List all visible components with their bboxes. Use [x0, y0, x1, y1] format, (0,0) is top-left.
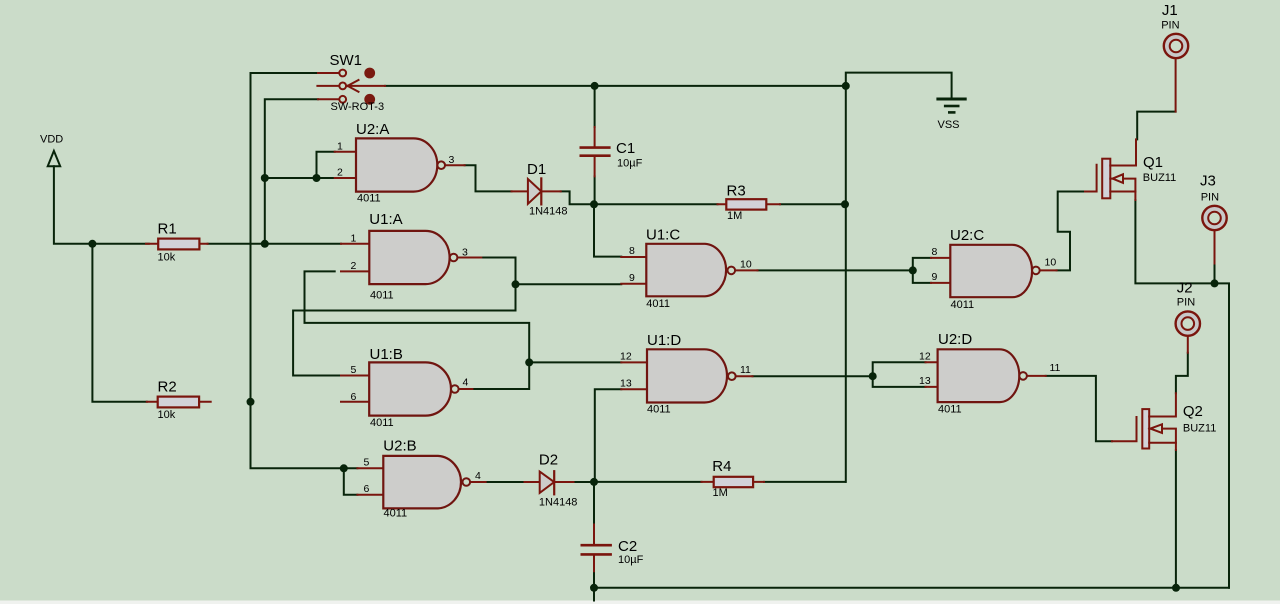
- svg-text:10: 10: [1045, 257, 1057, 269]
- svg-text:U2:C: U2:C: [950, 227, 984, 244]
- ground VSS: [938, 99, 966, 131]
- wire U2:A output to D1: [465, 165, 512, 191]
- wire R4 right to VSS rail: [764, 481, 845, 483]
- wire J2 to Q2 drain: [1176, 353, 1188, 394]
- svg-text:J3: J3: [1200, 172, 1216, 189]
- svg-text:D2: D2: [539, 452, 558, 469]
- svg-text:BUZ11: BUZ11: [1183, 423, 1216, 435]
- svg-text:SW-ROT-3: SW-ROT-3: [331, 101, 385, 113]
- wire U2:B output to D2: [486, 481, 525, 483]
- svg-text:3: 3: [462, 246, 468, 258]
- svg-text:4011: 4011: [951, 299, 975, 311]
- svg-text:U2:A: U2:A: [356, 121, 389, 138]
- svg-text:J2: J2: [1177, 279, 1193, 296]
- wire D2 cathode to node B: [574, 481, 595, 483]
- wire bottom rail: [594, 588, 1229, 601]
- NAND gate U1:D: [620, 332, 753, 416]
- svg-text:1N4148: 1N4148: [539, 497, 578, 509]
- NAND gate U1:B: [341, 346, 472, 429]
- svg-text:5: 5: [351, 364, 357, 376]
- svg-text:4011: 4011: [370, 290, 394, 302]
- svg-text:R2: R2: [158, 378, 177, 395]
- node junction dots: [88, 240, 96, 248]
- wire node B to R4 left: [594, 481, 702, 483]
- wire node to R3 left: [594, 203, 718, 205]
- wire C1 bottom to node: [594, 176, 596, 204]
- svg-text:SW1: SW1: [330, 52, 363, 69]
- svg-text:D1: D1: [527, 161, 546, 178]
- svg-text:11: 11: [1050, 362, 1061, 374]
- svg-text:1M: 1M: [713, 487, 728, 499]
- transistor Q1: [1085, 139, 1176, 200]
- svg-text:3: 3: [449, 154, 455, 166]
- svg-text:2: 2: [351, 260, 357, 272]
- svg-text:4011: 4011: [384, 507, 408, 519]
- svg-text:4011: 4011: [938, 403, 962, 415]
- svg-text:J1: J1: [1162, 2, 1178, 19]
- diode D2: [525, 452, 578, 509]
- svg-text:10µF: 10µF: [618, 554, 644, 566]
- svg-text:11: 11: [740, 364, 751, 376]
- svg-text:10µF: 10µF: [617, 157, 643, 169]
- wire U2:D output to Q2 gate: [1046, 376, 1112, 441]
- wire R3 right to VSS rail: [780, 203, 845, 205]
- wire U2:A pin1 branch: [317, 152, 335, 178]
- NAND gate U2:C: [931, 227, 1057, 311]
- NAND gate U2:B: [357, 438, 485, 520]
- wire Q2 source to bottom rail: [1175, 450, 1177, 588]
- svg-text:R1: R1: [158, 220, 177, 237]
- wire SW1 pole to VSS ground: [385, 73, 952, 98]
- power VDD: [40, 133, 63, 166]
- wire U1:D output to U2:D inputs: [753, 362, 926, 387]
- svg-text:6: 6: [351, 391, 357, 403]
- svg-text:4011: 4011: [646, 298, 670, 310]
- svg-text:U1:D: U1:D: [647, 332, 681, 349]
- svg-text:Q1: Q1: [1143, 154, 1163, 171]
- wire U1:B output: [472, 362, 529, 389]
- svg-text:10k: 10k: [158, 251, 176, 263]
- wire U1:A output: [481, 258, 515, 285]
- wire J3 stem: [1214, 264, 1216, 284]
- svg-text:Q2: Q2: [1183, 403, 1203, 420]
- resistor R4: [702, 458, 765, 499]
- svg-text:U1:B: U1:B: [370, 346, 403, 363]
- wire J1 to Q1 drain: [1137, 112, 1175, 140]
- svg-text:13: 13: [620, 378, 632, 390]
- wire D1 cathode to node: [561, 191, 594, 204]
- svg-text:1N4148: 1N4148: [529, 206, 568, 218]
- NAND gate U2:D: [919, 331, 1061, 416]
- svg-text:5: 5: [364, 456, 370, 468]
- connector J3: [1200, 172, 1227, 263]
- svg-text:R3: R3: [727, 182, 746, 199]
- svg-text:U1:C: U1:C: [646, 227, 680, 244]
- svg-text:1: 1: [337, 140, 343, 152]
- wire U1:A pin2 to U1:B out node: [305, 271, 530, 362]
- svg-text:2: 2: [337, 167, 343, 179]
- svg-text:4011: 4011: [647, 404, 671, 416]
- transistor Q2: [1112, 393, 1216, 450]
- wire U1:B out node to U1:D pin12: [529, 361, 621, 363]
- svg-text:4: 4: [475, 470, 481, 482]
- svg-text:BUZ11: BUZ11: [1143, 172, 1176, 184]
- svg-text:9: 9: [932, 271, 938, 283]
- svg-text:U1:A: U1:A: [369, 211, 402, 228]
- svg-text:4011: 4011: [357, 192, 381, 204]
- NAND gate U1:C: [621, 227, 757, 311]
- connector J2: [1176, 279, 1200, 352]
- wire U1:D pin13 to node B: [595, 389, 622, 482]
- svg-text:U2:D: U2:D: [938, 331, 972, 348]
- svg-text:4011: 4011: [370, 417, 394, 429]
- capacitor C1: [581, 127, 643, 176]
- svg-text:1M: 1M: [727, 210, 742, 222]
- wire VSS vertical rail: [845, 86, 847, 482]
- wire feedback U1:A out to U1:B pin5: [293, 284, 515, 375]
- wire U2:C output to Q1 gate: [1057, 192, 1085, 271]
- svg-text:VDD: VDD: [40, 133, 63, 145]
- svg-text:PIN: PIN: [1201, 191, 1219, 203]
- wire C1 top: [594, 86, 596, 127]
- svg-text:10: 10: [740, 258, 752, 270]
- svg-text:4: 4: [463, 377, 469, 389]
- wire node to U1:C pin8: [594, 204, 621, 256]
- svg-text:8: 8: [932, 246, 938, 258]
- svg-text:13: 13: [919, 375, 931, 387]
- resistor R3: [718, 182, 781, 222]
- svg-text:PIN: PIN: [1177, 297, 1195, 309]
- wire R1 right to U1:A pin1: [208, 243, 341, 245]
- svg-text:C2: C2: [618, 538, 637, 555]
- svg-text:12: 12: [620, 351, 632, 363]
- svg-text:6: 6: [364, 483, 370, 495]
- wire VDD stem to R1: [54, 166, 149, 244]
- wire Q1 source to J2 J3 node: [1135, 200, 1229, 588]
- svg-text:C1: C1: [616, 140, 635, 157]
- NAND gate U1:A: [341, 211, 481, 302]
- wire node A to U1:C pin9: [516, 283, 622, 285]
- svg-text:12: 12: [919, 350, 931, 362]
- connector J1: [1161, 2, 1188, 112]
- wire SW1 bottom contact down to R1 node: [265, 99, 318, 244]
- op-amp substitute: NAND gate U2:A: [335, 121, 465, 204]
- wire SW1 top contact to U2:B inputs: [251, 73, 358, 468]
- svg-text:1: 1: [351, 233, 357, 245]
- svg-text:9: 9: [629, 272, 635, 284]
- svg-text:PIN: PIN: [1161, 20, 1179, 32]
- svg-text:U2:B: U2:B: [383, 438, 416, 455]
- canvas bottom edge strip: [0, 601, 1280, 604]
- svg-text:R4: R4: [712, 458, 731, 475]
- capacitor C2: [582, 525, 644, 572]
- diode D1: [512, 161, 568, 218]
- switch SW1: [317, 52, 385, 113]
- svg-text:8: 8: [629, 245, 635, 257]
- wire VDD branch down to R2: [92, 244, 146, 402]
- svg-text:10k: 10k: [158, 409, 176, 421]
- resistor R2: [147, 378, 211, 421]
- wire U1:C output to U2:C inputs: [758, 258, 932, 283]
- wire C2 bottom: [593, 571, 595, 588]
- wire U2:A pin2 row: [265, 177, 335, 179]
- svg-text:VSS: VSS: [938, 119, 960, 131]
- resistor R1: [146, 220, 208, 263]
- wire C2 top: [593, 482, 595, 525]
- wire U2:B pin6 branch: [344, 468, 358, 495]
